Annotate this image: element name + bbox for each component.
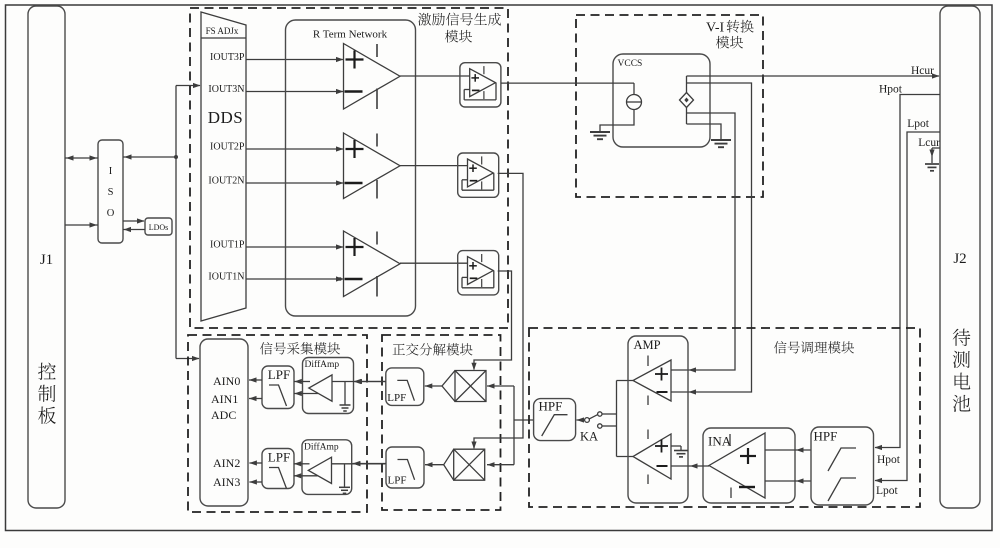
op-amp A2 (344, 133, 401, 199)
svg-text:IOUT2P: IOUT2P (210, 142, 245, 153)
svg-text:S: S (108, 187, 114, 198)
svg-text:DiffAmp: DiffAmp (304, 441, 339, 452)
wire DiffAmp2 outputs (294, 463, 310, 465)
svg-text:DDS: DDS (208, 108, 244, 127)
wire LPF2 to AIN2 (249, 462, 262, 464)
junction dot IOUT1N (338, 277, 342, 281)
svg-text:ADC: ADC (211, 408, 236, 422)
svg-text:Hcur: Hcur (911, 65, 934, 77)
svg-text:LDOs: LDOs (149, 223, 169, 232)
svg-text:HPF: HPF (814, 429, 838, 444)
svg-text:Lpot: Lpot (876, 485, 899, 497)
dds DDS trapezoid (201, 12, 246, 321)
svg-text:IOUT1P: IOUT1P (210, 240, 245, 251)
wire AMP2 ground (671, 445, 681, 447)
divider FS ADJx compartment (201, 37, 246, 39)
svg-text:AIN0: AIN0 (213, 374, 240, 388)
low-pass filter LPF4 (386, 447, 424, 488)
label 信号调理模块 (774, 341, 787, 353)
wire ISO-LDOs lower (123, 229, 145, 231)
box R Term Network (286, 20, 416, 316)
junction dot (174, 155, 178, 159)
svg-text:J2: J2 (953, 251, 966, 267)
wire A3 to U3 (400, 262, 468, 264)
differential amplifier DiffAmp1 (303, 358, 354, 414)
svg-text:Hpot: Hpot (879, 84, 903, 96)
connector J1 (28, 6, 65, 508)
high-pass filter HPF1 (534, 399, 576, 441)
amplifier block AMP (628, 336, 688, 503)
label 控制板 (control board) (38, 363, 56, 380)
svg-text:AMP: AMP (634, 338, 661, 352)
wire HPF2 to INA noninverting (765, 449, 811, 451)
mixer M1 (455, 371, 486, 402)
wire DiffAmp1 outputs (294, 381, 310, 383)
svg-text:LPF: LPF (268, 367, 290, 382)
mixer M2 (454, 449, 485, 480)
wire vertical control bus (175, 86, 177, 359)
svg-text:Hpot: Hpot (877, 454, 901, 466)
dashed box signal conditioning module (529, 328, 920, 507)
svg-text:Lpot: Lpot (907, 118, 930, 130)
svg-text:DiffAmp: DiffAmp (305, 359, 340, 370)
svg-text:LPF: LPF (387, 392, 406, 404)
wire diamond bottom to AMP noninverting input (686, 108, 688, 125)
wire U2 output to mixer2 LO (474, 173, 523, 448)
svg-text:IOUT1N: IOUT1N (208, 272, 244, 283)
switch KA (585, 418, 590, 423)
ground (590, 131, 610, 133)
ground (925, 163, 939, 165)
svg-text:IOUT2N: IOUT2N (208, 176, 244, 187)
low-pass filter LPF2 (262, 449, 294, 489)
svg-text:R Term Network: R Term Network (313, 29, 388, 41)
wire DiffAmp2 input (332, 463, 386, 465)
wire diamond to ground (687, 124, 722, 140)
wire LPF2 to AIN3 (249, 481, 262, 483)
isolator ISO (98, 140, 123, 243)
op-amp A1 (344, 44, 401, 110)
wire U3 output to mixer1 LO (474, 271, 512, 370)
wire IOUT2N (246, 182, 343, 184)
wire IOUT3N (246, 91, 343, 93)
wire DiffAmp1 ground (344, 382, 346, 405)
ground (711, 139, 731, 141)
wire A2 to U2 (400, 165, 468, 167)
dependent source CS2 diamond (680, 93, 694, 108)
svg-text:KA: KA (580, 430, 598, 444)
svg-text:IOUT3P: IOUT3P (210, 52, 245, 63)
dashed box excitation signal generation module (190, 8, 508, 328)
wire switch throw 1 (602, 413, 617, 415)
label 激励信号生成模块 (418, 13, 431, 26)
svg-text:Lcur: Lcur (918, 137, 940, 149)
wire A1 to U1 (400, 75, 470, 77)
svg-text:V-I: V-I (706, 21, 724, 36)
wire J1-ISO bus (65, 157, 98, 159)
op-amp A3 (344, 231, 401, 297)
wire LPF1 to AIN0 (249, 379, 262, 381)
regulator LDOs (145, 218, 172, 235)
label 信号采集模块 (260, 342, 273, 354)
wire ISO-LDOs upper (123, 220, 144, 222)
wire to ADC input (176, 358, 199, 360)
low-pass filter LPF3 (386, 368, 424, 406)
wire IOUT1P (246, 246, 343, 248)
ground (674, 450, 688, 452)
wire switch throw 2 (602, 425, 617, 427)
svg-text:I: I (109, 166, 113, 177)
differential amplifier DiffAmp2 (302, 440, 352, 495)
wire mixer1 output (425, 385, 442, 387)
wire HPF2 to INA inverting (765, 480, 811, 482)
dashed box signal acquisition module (188, 335, 367, 512)
wire U1 to VCCS (501, 82, 634, 84)
svg-text:AIN1: AIN1 (211, 392, 238, 406)
wire HPF output to mixers RF (514, 419, 534, 421)
wire diamond top (686, 76, 688, 93)
wire mixer2 output (425, 464, 444, 466)
wire AMP outputs bus (616, 381, 618, 457)
buffer amplifier U1 (460, 63, 501, 107)
wire INA output to AMP2 (671, 465, 709, 467)
svg-text:VCCS: VCCS (618, 59, 643, 69)
buffer amplifier U2 (458, 153, 499, 197)
svg-text:LPF: LPF (388, 475, 407, 487)
wire CS1 to ground (600, 110, 634, 132)
instrumentation amplifier INA (703, 428, 795, 503)
dashed box V-I conversion module (576, 15, 763, 197)
svg-text:AIN3: AIN3 (213, 475, 240, 489)
svg-text:FS ADJx: FS ADJx (206, 26, 239, 36)
svg-text:INA: INA (708, 434, 732, 449)
wire ISO to DDS bus (123, 156, 176, 158)
svg-text:J1: J1 (40, 252, 53, 268)
op-amp AMP2 (633, 434, 671, 479)
wire IOUT1N (246, 278, 343, 280)
svg-text:LPF: LPF (268, 450, 290, 465)
wire IOUT3P (246, 59, 343, 61)
wire sense to AMP inverting input (671, 83, 752, 392)
low-pass filter LPF1 (262, 366, 294, 409)
buffer amplifier U3 (458, 251, 499, 295)
label 待测电池 (battery under test) (953, 329, 971, 346)
wire Hcur (687, 75, 940, 77)
wire DiffAmp2 ground (344, 464, 346, 487)
svg-text:AIN2: AIN2 (213, 456, 240, 470)
wire LPF4 to DiffAmp2 (353, 463, 386, 465)
svg-text:HPF: HPF (539, 399, 563, 414)
wire LPF1 to AIN1 (249, 398, 262, 400)
wire J1-ISO lower (65, 224, 98, 226)
label 正交分解模块 (393, 344, 405, 355)
dashed box quadrature decomposition module (382, 335, 501, 510)
wire switch to HPF1 (577, 419, 585, 421)
svg-text:IOUT3N: IOUT3N (208, 84, 244, 95)
wire IOUT2P (246, 148, 343, 150)
wire LPF3 to DiffAmp1 (355, 381, 386, 383)
op-amp AMP1 (633, 360, 671, 401)
wire DiffAmp1 input (332, 381, 386, 383)
connector J2 (940, 6, 980, 508)
adc ADC (200, 339, 248, 506)
wire to DDS input (176, 85, 200, 87)
current source CS1 (627, 95, 642, 110)
box VCCS (613, 54, 710, 147)
svg-text:O: O (107, 208, 115, 219)
high-pass filter HPF2 (811, 427, 874, 505)
